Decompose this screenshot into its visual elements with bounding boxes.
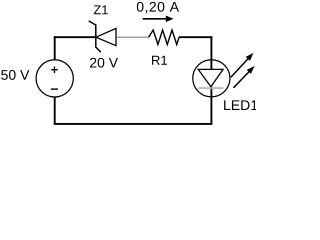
plus sign of source [51, 67, 58, 74]
wire bottom horizontal [54, 123, 213, 125]
light emission arrow upper [231, 53, 254, 77]
current direction arrow [143, 16, 174, 23]
wire right vertical lower (LED apex down to corner) [210, 87, 212, 125]
label Z1 [94, 5, 108, 14]
label LED1 [224, 100, 257, 110]
LED1 circle [193, 60, 230, 97]
LED1 cathode bar (gray) [198, 87, 223, 89]
wire right vertical upper (corner down into LED) [210, 36, 212, 69]
label R1 [152, 56, 167, 65]
wire top-left horizontal (source to zener cathode) [54, 36, 96, 38]
LED1 triangle (pointing down) [198, 69, 223, 86]
zener diode Z1 triangle [96, 28, 116, 45]
label 20 V [90, 58, 118, 68]
voltage source V1 circle [36, 60, 73, 97]
light emission arrow lower [234, 66, 255, 88]
wire left vertical upper (corner down to source top) [54, 36, 56, 60]
zener diode Z1 cathode bar with bent ends [89, 21, 101, 52]
wire top-right horizontal (resistor to corner) [179, 36, 212, 38]
label 50 V [1, 70, 29, 80]
label 0,20 A [137, 2, 179, 14]
resistor R1 zigzag [149, 30, 180, 45]
wire gray (zener anode to resistor) [117, 36, 149, 38]
wire left vertical lower (source bottom to corner) [54, 97, 56, 125]
minus sign of source [51, 88, 58, 90]
